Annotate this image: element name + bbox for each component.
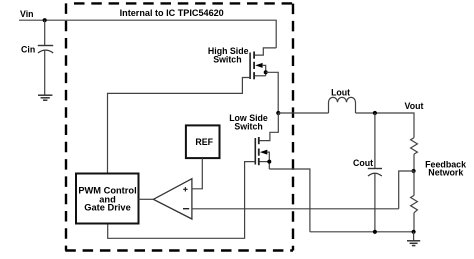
- wire: source out to ground rail: [269, 169, 310, 232]
- gate bar: [249, 53, 251, 80]
- resistor R2 feedback lower: [411, 195, 418, 212]
- pin -: [183, 208, 189, 210]
- source stub: [255, 75, 266, 77]
- ground (Cin): [38, 95, 52, 100]
- wire: Vin rail to high-side drain: [19, 20, 276, 48]
- wire: Cin top lead: [44, 20, 46, 45]
- transistor Q2 low-side MOSFET: [108, 113, 310, 238]
- wire: Cin bottom lead: [44, 51, 46, 95]
- wire: feedback tap to comparator: [399, 171, 414, 209]
- node: switch node dot: [276, 111, 280, 115]
- wire: comparator output to PWM box: [139, 198, 154, 200]
- op-amp U1 comparator: [153, 179, 192, 219]
- wire: source out to switch node: [266, 72, 279, 113]
- channel segments: [253, 52, 255, 59]
- node: Cout bottom dot: [373, 230, 377, 234]
- body stub with arrow: [260, 150, 267, 155]
- node: Vin/Cin junction dot: [43, 18, 47, 22]
- resistor R1 feedback upper: [411, 138, 418, 154]
- wire: REF to comparator + input: [192, 158, 202, 189]
- svg-text:Gate Drive: Gate Drive: [84, 203, 131, 213]
- wire: Cout bottom lead: [374, 173, 376, 231]
- wire: bottom ground rail: [310, 231, 414, 233]
- svg-text:REF: REF: [195, 137, 213, 147]
- node: body/source dot: [267, 160, 271, 164]
- node: body/source dot: [264, 70, 268, 74]
- capacitor Cout: [368, 168, 382, 170]
- node: feedback divider dot: [412, 169, 416, 173]
- wire: Cout top lead: [374, 113, 376, 169]
- drain stub + staircase to switch node: [260, 113, 279, 141]
- capacitor Cin: [38, 45, 53, 47]
- body stub with arrow: [255, 63, 262, 68]
- node: feedback bottom dot: [412, 230, 416, 234]
- wire: rail from Lout to Vout corner: [356, 113, 415, 138]
- svg-text:Cout: Cout: [353, 158, 373, 168]
- wire: gate lead loop to PWM box bottom: [108, 162, 256, 239]
- transistor Q1 high-side MOSFET: [108, 48, 279, 174]
- svg-text:Cin: Cin: [21, 44, 35, 54]
- svg-text:Vout: Vout: [405, 101, 424, 111]
- pin +: [183, 188, 187, 190]
- svg-text:Network: Network: [428, 167, 463, 177]
- inductor Lout: [329, 97, 356, 113]
- block: PWM Control and Gate Drive: [76, 174, 139, 224]
- wire: switch node rail (left of Lout): [278, 112, 328, 114]
- drain stub + staircase to Vin rail: [255, 48, 276, 55]
- wire: R2 to ground rail: [413, 213, 415, 232]
- gate bar: [254, 138, 256, 165]
- svg-text:Vin: Vin: [20, 9, 34, 19]
- dashed IC boundary box: [65, 3, 293, 250]
- ground (output): [413, 232, 415, 241]
- svg-text:Internal to IC TPIC54620: Internal to IC TPIC54620: [120, 8, 224, 18]
- svg-text:Switch: Switch: [234, 122, 262, 132]
- wire: gate lead to PWM box: [108, 78, 251, 174]
- channel segments: [258, 137, 260, 144]
- node: Cout junction dot: [373, 111, 377, 115]
- wire: comparator - input from feedback: [192, 208, 399, 210]
- wire: FB node to R2: [413, 171, 415, 195]
- source stub: [260, 161, 270, 163]
- wire: R1 to FB node: [413, 154, 415, 171]
- svg-text:Switch: Switch: [213, 54, 241, 64]
- svg-text:Lout: Lout: [331, 87, 350, 97]
- block: REF: [186, 125, 220, 158]
